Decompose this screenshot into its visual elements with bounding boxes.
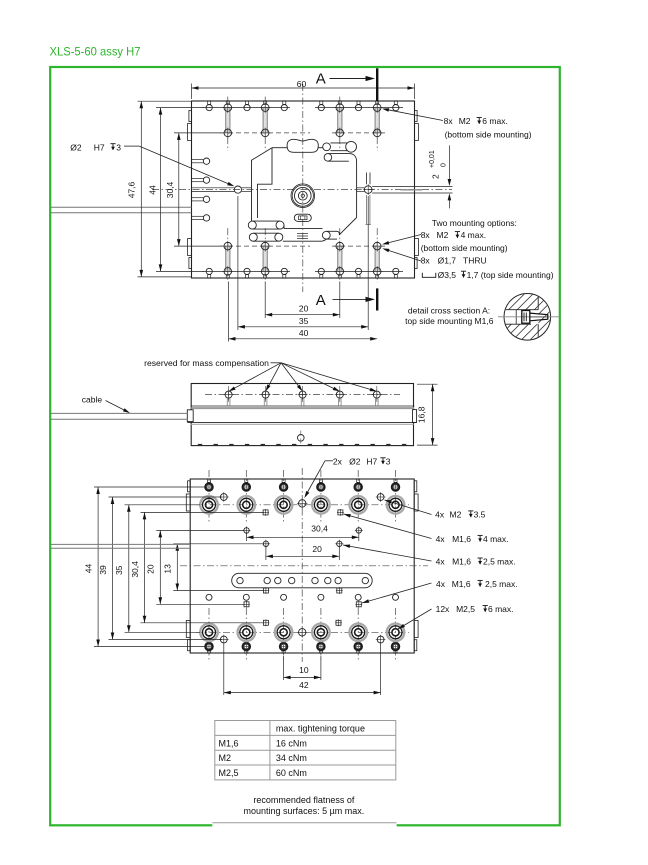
flexure right edge [356, 162, 358, 218]
svg-text:0: 0 [441, 163, 448, 167]
side view right end block [413, 410, 417, 423]
bottom left dims [97, 487, 99, 647]
flexure bottom edge [284, 228, 323, 230]
bottom view M2.5 tapped rows [205, 483, 213, 491]
svg-text:Ø3,5: Ø3,5 [438, 270, 457, 280]
svg-text:M1,6: M1,6 [452, 534, 471, 544]
svg-text:30,4: 30,4 [165, 181, 175, 198]
svg-text:8x: 8x [444, 116, 454, 126]
torque table [215, 721, 396, 780]
green border frame [50, 67, 560, 825]
top view column centerlines [227, 97, 229, 151]
svg-text:2x: 2x [333, 456, 343, 466]
dowel hole right with slot [364, 186, 372, 194]
flexure bottom right chamfer [339, 218, 356, 235]
svg-text:+0,01: +0,01 [429, 150, 436, 168]
cable side view [51, 412, 188, 414]
bottom view washer circles [200, 496, 218, 514]
side view body [191, 384, 413, 446]
svg-text:2: 2 [431, 174, 441, 179]
svg-text:top side mounting M1,6: top side mounting M1,6 [405, 316, 494, 326]
top view left side holes [192, 159, 204, 161]
svg-text:(bottom side mounting): (bottom side mounting) [445, 129, 532, 139]
top view right edge tabs [415, 111, 418, 122]
svg-text:3: 3 [116, 142, 121, 152]
svg-text:M1,6: M1,6 [452, 557, 471, 567]
flexure second bone [324, 154, 332, 162]
side view slider bar [191, 405, 414, 407]
detail centerline [498, 316, 561, 318]
dim 47.6 left [138, 100, 192, 102]
svg-text:M2: M2 [437, 230, 449, 240]
bottom view inner dim 30.4 [246, 533, 248, 541]
section line A bottom [376, 288, 378, 310]
flexure bottom left bone 1 [248, 221, 256, 229]
svg-text:M2: M2 [219, 753, 232, 763]
svg-text:6 max.: 6 max. [488, 604, 514, 614]
flexure top right bone [323, 143, 331, 151]
svg-text:8x: 8x [421, 256, 431, 266]
svg-text:mounting surfaces: 5 µm max.: mounting surfaces: 5 µm max. [244, 806, 365, 816]
dim 60 top [191, 84, 193, 100]
svg-text:M1,6: M1,6 [452, 579, 471, 589]
dim 2 tolerance right [448, 145, 450, 184]
central bearing circles [291, 184, 315, 208]
flexure bottom left bone 2 [249, 233, 257, 241]
bottom view centerlines [301, 468, 303, 662]
top view row A holes [206, 105, 212, 111]
svg-text:8x: 8x [421, 230, 431, 240]
svg-text:60: 60 [297, 79, 307, 89]
svg-text:39: 39 [98, 565, 108, 575]
bottom view M1.6 holes row 20 [244, 528, 249, 533]
side view screws [228, 386, 230, 403]
svg-text:M2: M2 [459, 116, 471, 126]
svg-text:16 cNm: 16 cNm [276, 738, 307, 748]
svg-text:42: 42 [299, 680, 309, 690]
dowel hole D2 H7 left [234, 186, 241, 193]
bottom view plain holes row [206, 594, 212, 600]
bottom view center capsule [232, 573, 373, 588]
svg-text:2,5 max.: 2,5 max. [485, 579, 518, 589]
flexure bottom right bone [322, 231, 330, 239]
bottom view inner dim 20 [265, 546, 267, 560]
svg-text:(bottom side mounting): (bottom side mounting) [421, 243, 508, 253]
top view edge stems top row [208, 101, 211, 105]
svg-text:THRU: THRU [463, 256, 487, 266]
flexure top-left chamfer and left edge [252, 148, 273, 221]
svg-text:20: 20 [146, 564, 156, 574]
bottom dims 10 and 42 [283, 656, 285, 680]
slider rails right [357, 187, 365, 189]
svg-text:16,8: 16,8 [417, 406, 427, 423]
svg-text:A: A [316, 292, 326, 309]
svg-text:A: A [316, 71, 326, 88]
svg-text:recommended flatness of: recommended flatness of [253, 795, 355, 805]
bottom view plate outline [190, 479, 414, 653]
side view bottom magnet ticks [198, 444, 202, 446]
top view grey mounting slots [226, 108, 230, 133]
svg-text:35: 35 [299, 316, 309, 326]
mass compensation leader fan [271, 362, 282, 364]
micro marking [297, 233, 308, 235]
bottom view left edge tabs [188, 481, 191, 492]
svg-text:2,5 max.: 2,5 max. [483, 557, 516, 567]
top view centerline horizontal [152, 189, 452, 191]
svg-text:M2,5: M2,5 [219, 768, 239, 778]
bottom view right edge tabs [414, 481, 417, 492]
svg-text:Two mounting options:: Two mounting options: [432, 218, 517, 228]
svg-text:Ø2: Ø2 [349, 456, 361, 466]
dim 30.4 left [174, 132, 222, 134]
cable bottom view [51, 543, 190, 545]
svg-text:4x: 4x [436, 557, 446, 567]
detail bottom surface thick line [514, 337, 541, 342]
svg-text:4x: 4x [436, 534, 446, 544]
svg-text:cable: cable [82, 394, 103, 404]
svg-text:4 max.: 4 max. [483, 534, 509, 544]
svg-text:1,7 (top side mounting): 1,7 (top side mounting) [467, 270, 554, 280]
svg-text:10: 10 [299, 665, 309, 675]
svg-text:M2: M2 [450, 510, 462, 520]
slot below bearing [294, 214, 311, 221]
svg-text:34 cNm: 34 cNm [276, 753, 307, 763]
svg-text:max. tightening torque: max. tightening torque [276, 724, 365, 734]
svg-text:44: 44 [147, 185, 157, 195]
svg-text:20: 20 [299, 304, 309, 314]
dim 44 left [156, 107, 204, 109]
flexure top capsule [287, 139, 318, 152]
top view plate outline [192, 101, 415, 278]
svg-text:XLS-5-60 assy H7: XLS-5-60 assy H7 [50, 45, 141, 59]
svg-text:44: 44 [83, 564, 93, 574]
svg-text:20: 20 [312, 544, 322, 554]
side view left end block [187, 410, 193, 422]
svg-text:3: 3 [386, 456, 391, 466]
svg-text:M1,6: M1,6 [219, 738, 239, 748]
detail joint lines [537, 294, 539, 310]
svg-text:4x: 4x [435, 510, 445, 520]
svg-text:40: 40 [299, 328, 309, 338]
section line A top [376, 68, 378, 101]
leader lines mounting options [386, 235, 422, 244]
note box bottom line [212, 818, 396, 830]
svg-text:35: 35 [114, 565, 124, 575]
side view bottom center hole [298, 435, 305, 442]
top view hole row connecting lines [202, 107, 290, 109]
top view row B/C centerlines [220, 132, 310, 134]
svg-text:4 max.: 4 max. [461, 230, 487, 240]
svg-text:12x: 12x [436, 604, 450, 614]
detail screw M1.6 [522, 311, 530, 324]
svg-text:Ø1,7: Ø1,7 [438, 256, 457, 266]
bottom view M1.6 holes row 13 [263, 541, 268, 546]
svg-text:3.5: 3.5 [474, 510, 486, 520]
top view centerline vertical [302, 84, 304, 292]
cable lines top view [51, 206, 192, 208]
top view left edge tabs [189, 111, 192, 122]
svg-text:30,4: 30,4 [130, 561, 140, 578]
flexure bottom connecting line [283, 240, 322, 242]
svg-text:4x: 4x [436, 579, 446, 589]
dim 16.8 right [417, 383, 438, 385]
side view centerline [205, 394, 400, 396]
svg-text:6 max.: 6 max. [482, 116, 508, 126]
svg-text:60 cNm: 60 cNm [276, 768, 307, 778]
svg-text:47,6: 47,6 [127, 181, 137, 198]
bottom view dowel holes [299, 500, 306, 507]
svg-text:30,4: 30,4 [311, 524, 328, 534]
bottom view M1.6 holes row 30.4 [263, 510, 268, 515]
flexure inner left step [258, 148, 273, 218]
svg-text:reserved for mass compensation: reserved for mass compensation [144, 358, 269, 368]
svg-text:13: 13 [163, 564, 173, 574]
svg-text:Ø2: Ø2 [70, 142, 82, 152]
dim 20 35 40 bottom of top view [264, 282, 266, 319]
svg-text:detail cross section A:: detail cross section A: [408, 305, 490, 315]
svg-text:M2,5: M2,5 [456, 604, 475, 614]
flexure cutout outer loop [272, 147, 288, 149]
bottom view edge stems [208, 479, 211, 483]
svg-text:H7: H7 [94, 142, 105, 152]
bottom view M2 holes 4x [220, 494, 227, 501]
svg-text:H7: H7 [366, 456, 377, 466]
